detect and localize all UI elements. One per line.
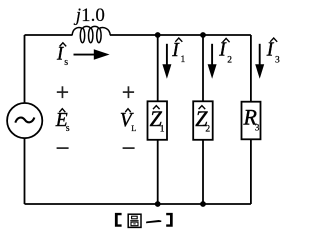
source Es circle <box>7 103 42 138</box>
current I2 label <box>218 38 232 65</box>
wire branch 1 vertical bottom <box>157 140 159 204</box>
label VL <box>120 109 137 133</box>
current I3 arrow <box>255 44 264 79</box>
minus sign Es <box>57 147 69 149</box>
source tilde <box>15 118 34 123</box>
svg-text:3: 3 <box>275 56 280 66</box>
current I3 label <box>266 38 280 66</box>
svg-text:1: 1 <box>160 124 165 134</box>
current Is label <box>56 43 68 68</box>
label Z2 <box>195 106 210 135</box>
impedance Z2 box <box>193 101 213 140</box>
svg-text:2: 2 <box>227 56 232 66</box>
label R3 <box>243 105 260 133</box>
caption glyph one <box>146 220 161 223</box>
wire branch 2 vertical top <box>202 35 204 101</box>
wire branch 3 vertical top <box>250 35 252 102</box>
label Z1 <box>150 106 165 135</box>
node junction dot top 2 <box>200 32 206 38</box>
caption glyph tu (figure) <box>128 214 141 227</box>
svg-text:s: s <box>64 57 68 68</box>
inductor L1 coil <box>72 26 110 42</box>
plus sign Es <box>57 86 68 98</box>
wire left vertical bottom <box>24 139 26 204</box>
svg-text:L: L <box>131 123 136 133</box>
current I2 arrow <box>208 44 217 79</box>
caption bracket right <box>166 213 173 227</box>
current I1 arrow <box>162 44 171 79</box>
wire branch 1 vertical top <box>157 35 159 101</box>
node junction dot bottom 2 <box>200 201 206 207</box>
wire bottom rail <box>25 203 251 205</box>
wire left vertical top <box>24 35 26 102</box>
wire top rail left segment <box>25 34 73 36</box>
current Is arrow <box>74 49 110 60</box>
wire top rail right segment <box>110 34 251 36</box>
resistor R3 box <box>242 102 261 140</box>
wire branch 2 vertical bottom <box>202 140 204 204</box>
svg-text:1: 1 <box>181 55 186 65</box>
plus sign VL <box>123 86 134 98</box>
svg-text:2: 2 <box>205 124 210 134</box>
caption bracket left <box>115 213 122 227</box>
svg-text:s: s <box>66 123 70 134</box>
svg-text:3: 3 <box>255 122 260 132</box>
node junction dot top 1 <box>155 32 161 38</box>
label Es <box>55 109 70 134</box>
node junction dot bottom 1 <box>155 201 161 207</box>
impedance Z1 box <box>148 101 168 140</box>
wire branch 3 vertical bottom <box>250 139 252 204</box>
svg-text:I: I <box>56 44 64 64</box>
current I1 label <box>171 38 185 65</box>
svg-text:j1.0: j1.0 <box>73 5 105 26</box>
minus sign VL <box>123 147 135 149</box>
